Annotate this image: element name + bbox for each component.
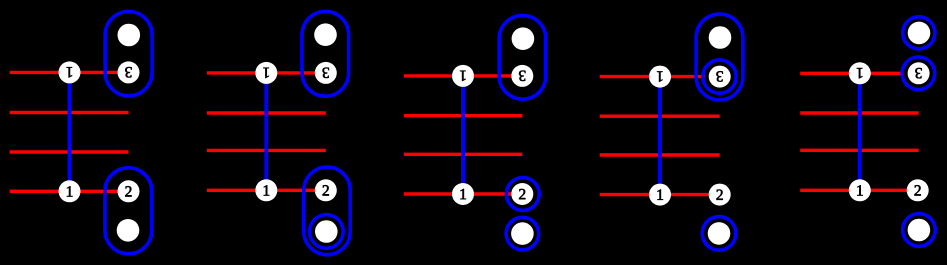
- node 3 rotated (panel 5): [908, 62, 930, 84]
- node 2 (panel 2): [315, 179, 337, 201]
- wire: blue vertical strand (panel 3): [461, 76, 465, 194]
- node 1 (panel 4): [649, 184, 671, 206]
- wire: red strand row 2 (panel 4): [600, 114, 720, 117]
- wire: red strand row 2 (panel 2): [207, 111, 326, 114]
- wire: red strand row 1 (panel 5): [800, 72, 903, 75]
- node 3 rotated (panel 1): [118, 61, 140, 83]
- wire: red strand row 3 (panel 3): [404, 153, 522, 156]
- top unlabeled disc (panel 3): [512, 27, 535, 50]
- node 3 rotated (panel 3): [511, 65, 533, 87]
- wire: red strand row 4 (panel 3): [404, 192, 522, 195]
- node 1 rotated (panel 3): [452, 65, 474, 87]
- wire: red strand row 1 (panel 1): [10, 71, 129, 74]
- bottom unlabeled disc (panel 5): [908, 219, 931, 242]
- wire: red strand row 2 (panel 3): [404, 114, 522, 117]
- blue ring around bottom disc (panel 3): [506, 217, 539, 250]
- blue stadium enclosing top disc and node 3 (panel 4): [696, 14, 743, 100]
- wire: red strand row 3 (panel 4): [600, 153, 720, 156]
- blue ring around bottom disc (panel 2): [310, 215, 344, 249]
- top unlabeled disc (panel 2): [314, 23, 337, 46]
- node 2 (panel 4): [709, 184, 731, 206]
- blue ring around node 3 (panel 5): [902, 57, 935, 90]
- node 1 (panel 2): [255, 179, 277, 201]
- node 2 (panel 3): [511, 183, 533, 205]
- blue ring around bottom disc (panel 5): [903, 214, 936, 247]
- wire: red strand row 4 (panel 5): [800, 189, 918, 192]
- wire: blue vertical strand (panel 5): [858, 73, 862, 190]
- wire: blue vertical strand (panel 2): [264, 73, 268, 190]
- top unlabeled disc (panel 5): [908, 22, 931, 45]
- bottom unlabeled disc (panel 4): [708, 222, 731, 245]
- blue stadium enclosing top disc and node 3 (panel 2): [302, 11, 349, 96]
- wire: red strand row 3 (panel 2): [207, 149, 326, 152]
- blue ring around bottom disc (panel 4): [702, 217, 736, 251]
- blue ring around node 2 (panel 3): [506, 178, 539, 211]
- blue stadium enclosing node 2 and bottom disc (panel 1): [105, 168, 152, 254]
- node 1 rotated (panel 2): [255, 62, 277, 84]
- blue ring around top disc (panel 5): [903, 17, 935, 49]
- top unlabeled disc (panel 1): [118, 24, 141, 47]
- bottom unlabeled disc (panel 3): [511, 222, 534, 245]
- blue stadium enclosing top disc and node 3 (panel 1): [105, 12, 152, 96]
- node 2 (panel 5): [907, 179, 929, 201]
- wire: red strand row 2 (panel 1): [10, 111, 129, 114]
- wire: red strand row 4 (panel 4): [600, 193, 720, 196]
- node 1 (panel 3): [452, 183, 474, 205]
- top unlabeled disc (panel 4): [709, 26, 732, 49]
- node 1 rotated (panel 5): [849, 62, 871, 84]
- wire: red strand row 2 (panel 5): [800, 111, 918, 114]
- node 3 rotated (panel 2): [315, 62, 337, 84]
- node 1 rotated (panel 4): [649, 66, 671, 88]
- wire: red strand row 3 (panel 1): [10, 150, 129, 153]
- wire: blue vertical strand (panel 4): [658, 77, 662, 195]
- blue stadium enclosing node 2 and bottom disc (panel 2): [304, 167, 350, 255]
- node 3 rotated (panel 4): [709, 66, 731, 88]
- wire: red strand row 4 (panel 1): [10, 190, 129, 193]
- wire: red strand row 1 (panel 3): [404, 74, 522, 77]
- node 1 rotated (panel 1): [59, 61, 81, 83]
- wire: red strand row 3 (panel 5): [800, 149, 918, 152]
- node 1 (panel 5): [849, 179, 871, 201]
- blue stadium enclosing top disc and node 3 (panel 3): [499, 15, 546, 99]
- wire: blue vertical strand (panel 1): [68, 72, 72, 191]
- node 1 (panel 1): [59, 180, 81, 202]
- wire: red strand row 1 (panel 2): [207, 71, 326, 74]
- bottom unlabeled disc (panel 2): [315, 220, 338, 243]
- wire: red strand row 4 (panel 2): [207, 189, 326, 192]
- blue ring around node 3 (panel 4): [703, 60, 736, 93]
- bottom unlabeled disc (panel 1): [117, 219, 140, 242]
- wire: red strand row 1 (panel 4): [600, 75, 705, 78]
- node 2 (panel 1): [118, 180, 140, 202]
